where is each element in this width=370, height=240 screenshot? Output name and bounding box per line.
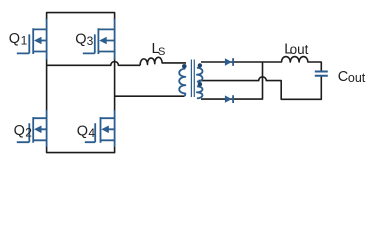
svg-text:Q: Q — [77, 124, 88, 140]
svg-text:S: S — [158, 46, 165, 58]
svg-text:out: out — [348, 71, 366, 85]
svg-text:Q: Q — [75, 31, 86, 47]
svg-text:out: out — [290, 42, 309, 57]
svg-text:1: 1 — [21, 33, 28, 47]
svg-text:2: 2 — [25, 125, 32, 139]
svg-text:3: 3 — [87, 34, 94, 48]
svg-text:Q: Q — [9, 31, 20, 47]
svg-text:Q: Q — [14, 123, 25, 139]
svg-text:C: C — [338, 69, 348, 85]
svg-text:4: 4 — [88, 126, 95, 140]
